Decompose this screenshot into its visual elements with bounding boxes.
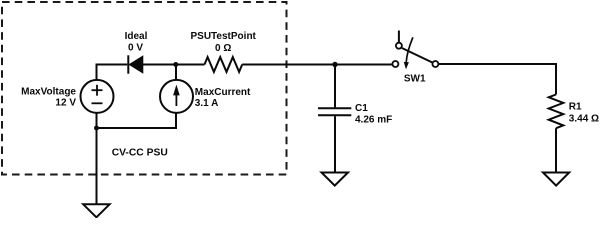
svg-text:3.44 Ω: 3.44 Ω [569, 113, 599, 124]
svg-text:PSUTestPoint: PSUTestPoint [191, 31, 257, 42]
svg-text:4.26 mF: 4.26 mF [355, 115, 392, 126]
svg-text:0 V: 0 V [128, 42, 143, 53]
svg-text:Ideal: Ideal [125, 31, 148, 42]
svg-text:3.1 A: 3.1 A [195, 98, 219, 109]
svg-text:0 Ω: 0 Ω [215, 43, 231, 54]
svg-text:CV-CC PSU: CV-CC PSU [112, 147, 168, 158]
svg-text:MaxCurrent: MaxCurrent [195, 87, 251, 98]
svg-text:R1: R1 [569, 101, 582, 112]
svg-text:12 V: 12 V [55, 98, 76, 109]
svg-text:MaxVoltage: MaxVoltage [21, 87, 76, 98]
svg-text:SW1: SW1 [404, 74, 426, 85]
svg-text:C1: C1 [355, 103, 368, 114]
